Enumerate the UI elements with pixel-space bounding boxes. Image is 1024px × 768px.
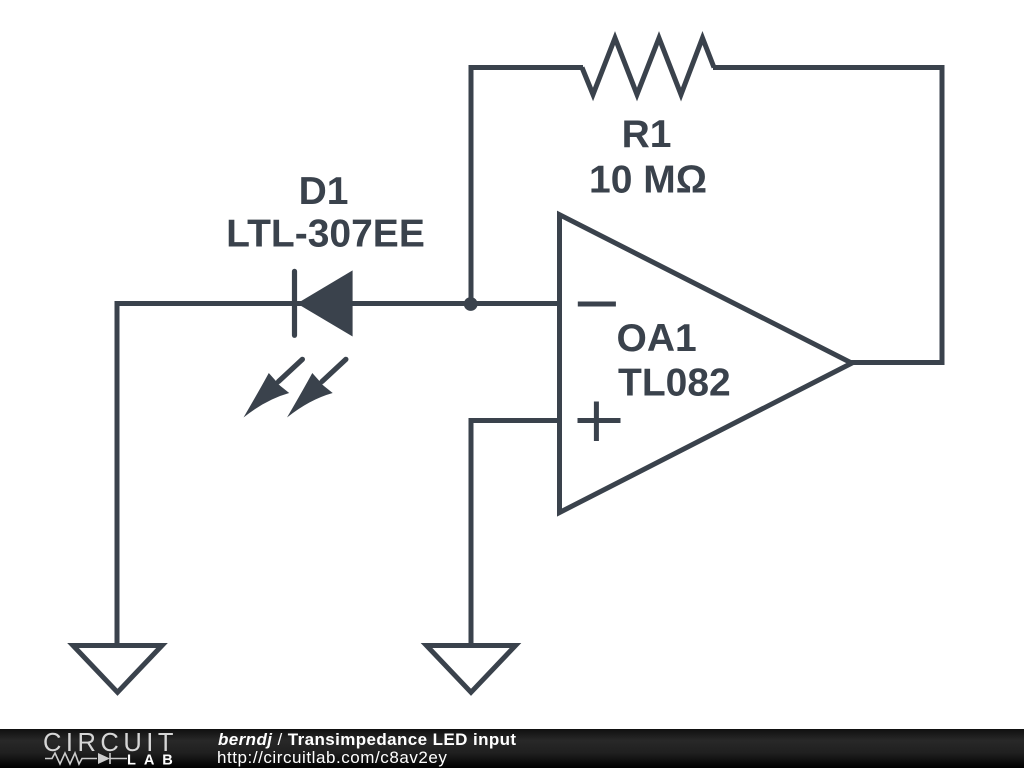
op-amp OA1 inverting pin (minus) — [578, 302, 616, 307]
svg-text:LAB: LAB — [127, 753, 181, 768]
diode D1 cathode bar — [292, 271, 297, 335]
svg-text:D1: D1 — [299, 170, 349, 213]
CircuitLab logo: resistor-diode squiggle — [45, 753, 127, 764]
svg-text:TL082: TL082 — [618, 361, 731, 404]
ground (non-inverting input) — [427, 646, 516, 693]
LED light arrow 2 shaft — [322, 359, 346, 381]
diode D1 triangle (anode, pointing left) — [297, 270, 353, 336]
op-amp OA1 triangle body — [560, 215, 852, 513]
op-amp OA1 non-inverting pin (plus) — [578, 402, 621, 442]
wire: feedback left vertical from node A up to resistor lead — [471, 68, 583, 307]
svg-text:berndj / Transimpedance LED in: berndj / Transimpedance LED input — [218, 730, 516, 749]
svg-text:LTL-307EE: LTL-307EE — [226, 213, 425, 256]
LED light arrow 1 shaft — [279, 359, 303, 381]
svg-text:10 MΩ: 10 MΩ — [589, 159, 707, 202]
svg-text:http://circuitlab.com/c8av2ey: http://circuitlab.com/c8av2ey — [217, 748, 447, 767]
LED light arrow 1 head — [244, 373, 290, 418]
LED light arrow 2 head — [287, 373, 333, 418]
wire: input net from op-amp minus through D1 to left branch down to ground — [117, 304, 560, 647]
wire: feedback right from resistor to top-right corner down to output — [713, 68, 942, 363]
wire: non-inverting input to ground — [471, 421, 560, 647]
resistor R1 zigzag body — [582, 38, 714, 95]
ground (left branch) — [73, 646, 162, 693]
node A: junction dot at inverting input — [464, 297, 478, 311]
svg-text:R1: R1 — [622, 113, 672, 156]
svg-text:OA1: OA1 — [617, 317, 697, 360]
